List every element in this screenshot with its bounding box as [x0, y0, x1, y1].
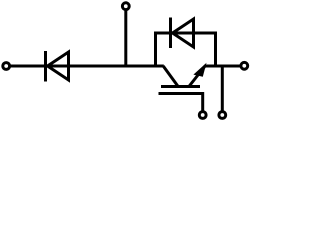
terminal 2 (right main terminal) [241, 62, 248, 69]
IGBT T1 collector lead [163, 66, 178, 87]
wire (emitter node to right terminal) [205, 65, 241, 68]
terminal 4 (gate) [199, 112, 206, 119]
IGBT T1 emitter lead [189, 66, 206, 88]
IGBT T1 body bar [161, 85, 200, 88]
terminal 5 (aux emitter) [219, 112, 226, 119]
diode D2 cathode bar (freewheeling) [169, 18, 172, 49]
terminal 1 (left main terminal) [3, 63, 10, 70]
wire (left terminal to collector node) [10, 65, 164, 68]
diode D1 cathode bar [44, 51, 47, 82]
diode D2 triangle [173, 19, 194, 47]
wire (top terminal down to collector node) [124, 10, 127, 66]
terminal 3 (top main terminal) [122, 3, 129, 10]
IGBT T1 gate line and wire to gate terminal [159, 94, 203, 112]
IGBT T1 emitter arrow [193, 63, 206, 77]
wire (freewheel diode loop) [156, 33, 216, 68]
diode D1 triangle [48, 52, 69, 80]
wire (emitter node down to aux emitter terminal) [221, 66, 224, 112]
